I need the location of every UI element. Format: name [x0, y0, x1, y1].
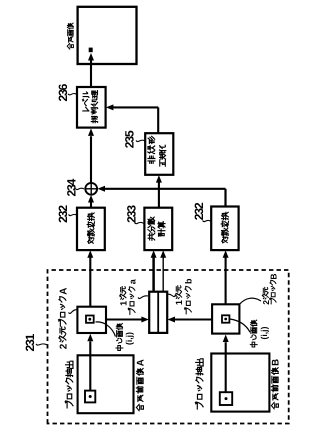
- label 合成画像: [67, 23, 73, 49]
- label 1次元ブロックa: [119, 278, 149, 314]
- svg-text:a: a: [127, 278, 137, 284]
- svg-text:1: 1: [119, 301, 129, 306]
- wire: 233 to 235: [156, 175, 162, 208]
- label 236: [56, 83, 77, 101]
- svg-text:A: A: [136, 359, 147, 366]
- label 合成前画像A: [136, 359, 147, 411]
- box 236 (レベル抑制処理): [77, 87, 106, 128]
- svg-text:b: b: [184, 278, 194, 284]
- svg-text:(i,j): (i,j): [259, 326, 269, 339]
- label 233: [125, 205, 144, 224]
- label 235: [123, 130, 145, 148]
- small block in image B with center pixel dot: [220, 392, 232, 405]
- composite image marker (small filled square): [89, 48, 93, 53]
- label 中心画像(i,j) for B: [230, 319, 269, 347]
- label 中心画像(i,j) for A: [96, 322, 134, 351]
- box 235 (非線形正規化): [145, 133, 173, 175]
- svg-text:231: 231: [23, 333, 37, 351]
- wire: adder 234 to 236: [88, 128, 94, 183]
- center pixel square in block A: [86, 316, 94, 323]
- svg-text:1: 1: [174, 300, 184, 305]
- label ブロック抽出 (B): [195, 359, 203, 409]
- label 2次元ブロックB: [240, 274, 279, 305]
- svg-text:234: 234: [64, 178, 78, 196]
- rotated landscape diagram: [23, 7, 289, 424]
- box 232 top (対数変換): [77, 208, 105, 250]
- label 234: [64, 178, 84, 196]
- 2D block B box: [212, 304, 239, 333]
- svg-text:232: 232: [192, 202, 206, 220]
- label 合成前画像B: [271, 359, 282, 409]
- wire: 2D block B up to 1D block b: [168, 317, 213, 323]
- label 232 (top): [56, 205, 77, 223]
- label 232 (bottom): [192, 202, 211, 222]
- label ブロック抽出 (A): [65, 361, 73, 408]
- svg-text:235: 235: [123, 130, 137, 148]
- svg-text:B: B: [268, 274, 278, 280]
- wire: image B block to 2D block B: [223, 335, 229, 393]
- wire: 235 to 236 (right-angle path): [106, 104, 158, 133]
- small block in image A with center pixel dot: [85, 391, 95, 403]
- svg-text:233: 233: [125, 205, 139, 223]
- dashed box 231 (processing unit): [48, 270, 289, 424]
- svg-text:2: 2: [59, 343, 70, 349]
- center pixel square in block B: [222, 315, 229, 322]
- box 232 bottom (対数変換): [211, 207, 238, 251]
- svg-text:A: A: [59, 288, 70, 295]
- composite image square (合成画像): [78, 7, 137, 64]
- svg-text:(i,j): (i,j): [124, 332, 134, 345]
- wire: 1D block a to covariance 233: [151, 250, 157, 291]
- 1D block a/b double rectangle: [149, 292, 167, 333]
- wire: 2D block B to log transform 232 (bottom): [223, 250, 229, 304]
- wire: 2D block A to log transform 232: [87, 250, 93, 306]
- wire: 1D block b to covariance 233: [160, 250, 166, 291]
- image square B (合成前画像B): [211, 354, 269, 412]
- svg-text:236: 236: [56, 83, 70, 101]
- wire: 232 top to adder 234: [88, 195, 94, 208]
- image square A (合成前画像A): [78, 355, 134, 413]
- svg-text:B: B: [271, 359, 282, 366]
- label 231: [23, 333, 47, 351]
- wire: 236 to composite image: [88, 53, 94, 87]
- adder circle 234 with cross: [85, 183, 97, 195]
- wire: 232 bottom to adder 234 (right-angle path): [98, 186, 226, 207]
- svg-text:232: 232: [56, 205, 70, 223]
- box 233 (共分散計算): [144, 208, 172, 250]
- svg-text:2: 2: [261, 300, 271, 305]
- label 1次元ブロックb: [167, 278, 194, 314]
- 2D block A box: [77, 307, 106, 333]
- wire: image A block to 2D block A: [87, 334, 93, 391]
- wire: 2D block A down to 1D block a: [106, 317, 149, 323]
- label 2次元ブロックA: [59, 288, 78, 350]
